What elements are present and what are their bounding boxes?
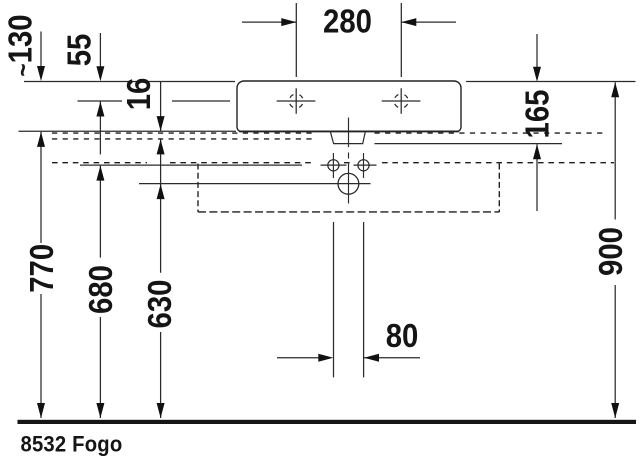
top reference line right segment	[466, 81, 636, 83]
drain pipe left line	[333, 222, 335, 377]
svg-text:~130: ~130	[1, 14, 39, 76]
faucet axis line left of sink	[78, 100, 231, 102]
dimension 16 upper arrow	[160, 82, 162, 132]
dimension 680 top arrowhead	[96, 166, 104, 181]
top reference line (sink rim level) left segment	[24, 81, 235, 83]
dimension 280 arrowheads	[281, 18, 416, 26]
svg-text:680: 680	[81, 265, 119, 314]
faucet hole dashed circle left	[289, 94, 303, 108]
faucet hole crosshair right	[382, 88, 421, 113]
dimension 900 floor arrowhead	[611, 403, 619, 418]
cabinet right dashed edge	[498, 164, 500, 213]
countertop top surface dashed line	[52, 132, 606, 134]
svg-text:630: 630	[140, 280, 178, 329]
svg-text:900: 900	[591, 227, 629, 276]
dimension 770 floor arrowhead	[37, 403, 45, 418]
dimension ~130 arrow line	[40, 32, 42, 71]
svg-text:16: 16	[119, 78, 157, 111]
floor line	[18, 420, 637, 424]
faucet hole crosshair left	[277, 88, 316, 113]
dimension 630 floor arrowhead	[157, 403, 165, 418]
siphon reference line (165 lower reference)	[375, 143, 563, 145]
dimension 165 upper arrow	[536, 34, 538, 70]
dimension 80 arrowheads	[318, 354, 379, 362]
cabinet left dashed edge	[197, 164, 199, 213]
dimension 55 upper arrow	[99, 33, 101, 70]
svg-text:770: 770	[22, 244, 60, 293]
fixing hole left centre line	[332, 153, 334, 178]
dimension 680 line	[99, 166, 101, 418]
drain tailpiece trapezoid	[330, 132, 365, 144]
dimension 900 top arrowhead	[611, 82, 619, 97]
countertop top solid ref line (770 reference)	[19, 130, 237, 132]
dimension 630 line	[160, 332, 162, 418]
dimension 680 floor arrowhead	[96, 403, 104, 418]
dimension 280 extension lines	[296, 3, 401, 77]
washbasin body	[237, 81, 461, 132]
dimension 165 lower arrow	[536, 144, 538, 211]
fixing-bolt axis line (680 reference)	[80, 164, 377, 166]
cabinet top dashed line	[52, 162, 614, 164]
dimension 55 lower arrow	[99, 102, 101, 155]
washbasin bottom edge	[239, 130, 459, 132]
svg-text:80: 80	[386, 316, 419, 354]
svg-text:165: 165	[518, 90, 556, 139]
drain pipe right line	[363, 222, 365, 377]
dimension 770 line	[40, 132, 42, 418]
faucet hole dashed circle right	[394, 94, 408, 108]
drain hole circle	[338, 173, 359, 194]
fixing hole right	[358, 160, 369, 171]
dimension 770 top arrowhead	[37, 132, 45, 147]
svg-text:55: 55	[60, 34, 98, 67]
drain axis line (630 reference)	[139, 183, 371, 185]
countertop bottom surface dashed line	[52, 138, 313, 140]
cabinet bottom dashed edge	[198, 211, 499, 213]
dimension 630 top arrowhead	[157, 184, 165, 199]
dimension 16 lower arrow merging into 630 line	[160, 139, 162, 272]
dimension 80 line	[277, 357, 420, 359]
fixing hole left	[328, 160, 339, 171]
svg-text:280: 280	[323, 2, 372, 40]
dimension 900 line	[614, 82, 616, 418]
dimension ~130 arrowhead	[37, 66, 45, 81]
vertical centre line	[348, 118, 350, 204]
svg-text:8532 Fogo: 8532 Fogo	[21, 433, 123, 457]
fixing hole right centre line	[363, 153, 365, 178]
dimension 280 line	[242, 21, 456, 23]
